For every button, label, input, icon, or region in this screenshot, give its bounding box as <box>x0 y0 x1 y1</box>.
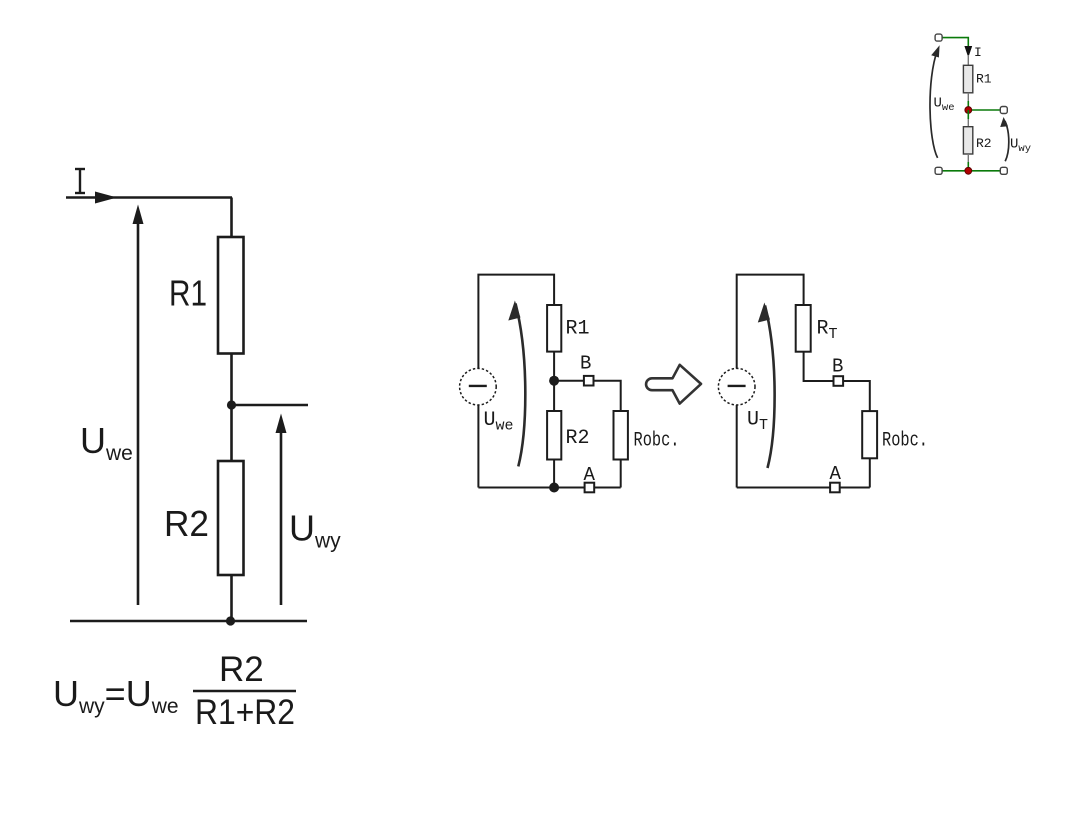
wire arrow to R1 <box>967 55 969 65</box>
svg-text:R1: R1 <box>566 318 590 341</box>
arrowhead I small <box>964 46 972 58</box>
svg-text:A: A <box>830 463 842 485</box>
wire node to right tap <box>232 404 309 407</box>
source minus line <box>469 385 487 387</box>
arrow Uwe small curved <box>930 50 938 158</box>
node dot mid (red) <box>965 107 972 114</box>
wire node to R2 <box>230 405 233 461</box>
terminal A square <box>585 483 595 493</box>
svg-text:R2: R2 <box>164 503 209 544</box>
arrow Uwy small curved <box>1005 121 1009 161</box>
arrowhead I current <box>95 192 117 204</box>
wire B to load branch <box>594 381 621 411</box>
resistor RT <box>796 305 811 352</box>
arrow Uwy <box>280 431 283 605</box>
wire RT to B <box>804 352 834 381</box>
wire top corner down to R1 <box>230 198 233 238</box>
wire R2 to bottom rail <box>230 575 233 621</box>
terminal B square <box>834 376 844 386</box>
svg-text:I: I <box>974 45 982 60</box>
wire R2 lead upper (gray) <box>967 119 969 127</box>
wire R2 to bottom <box>553 460 555 488</box>
svg-text:Robc.: Robc. <box>634 430 680 453</box>
bottom rail wire <box>70 620 307 623</box>
wire source to bottom <box>477 405 479 488</box>
resistor R2 <box>218 461 244 575</box>
bottom junction dot <box>226 616 235 625</box>
wire top <box>737 275 804 369</box>
resistor R2 <box>547 411 561 460</box>
wire R1 to node <box>230 354 233 406</box>
terminal A square <box>830 483 840 493</box>
svg-text:B: B <box>580 353 591 375</box>
resistor Robc <box>614 411 628 460</box>
resistor Robc right <box>862 411 877 458</box>
wire R2 to bottom rail <box>967 162 969 171</box>
wire R1 to mid node <box>967 101 969 110</box>
arrow Uwe curved <box>516 304 526 467</box>
resistor R1 <box>218 237 244 354</box>
wire mid node to right terminal <box>968 109 1000 111</box>
source UT circle <box>718 368 755 405</box>
terminal top left <box>935 34 942 41</box>
node dot B branch <box>549 376 559 386</box>
wire top small <box>942 38 968 46</box>
svg-text:Robc.: Robc. <box>882 430 928 453</box>
resistor R2 small <box>963 127 972 154</box>
arrow Uwe <box>137 222 140 605</box>
svg-text:R1+R2: R1+R2 <box>195 693 295 732</box>
wire A to load <box>840 487 870 489</box>
formula Uwy = Uwe * R2/(R1+R2) <box>53 650 296 732</box>
svg-text:R1: R1 <box>976 72 992 87</box>
wire node to terminal B <box>554 380 584 382</box>
resistor R1 <box>547 305 561 352</box>
wire B to load <box>843 381 870 411</box>
svg-text:R2: R2 <box>976 136 992 151</box>
svg-text:B: B <box>832 356 843 378</box>
wire R2 lead lower (gray) <box>967 154 969 162</box>
svg-text:A: A <box>584 464 596 486</box>
wire R1 to node B <box>553 352 555 411</box>
wire bottom rail <box>737 487 830 489</box>
terminal mid right <box>1000 107 1007 114</box>
svg-text:R1: R1 <box>169 273 207 314</box>
resistor R1 small <box>963 65 972 93</box>
svg-text:R2: R2 <box>566 427 590 450</box>
source Uwe circle <box>460 368 497 405</box>
wire source to bottom <box>736 405 738 488</box>
wire top <box>478 275 554 369</box>
big transform arrow <box>646 365 701 404</box>
arrow UT curved <box>765 306 775 469</box>
wire R1 lead lower (gray) <box>967 93 969 101</box>
wire mid node down (green) <box>967 110 969 119</box>
source minus line <box>728 385 746 387</box>
svg-text:R2: R2 <box>219 650 264 689</box>
node dot bottom <box>549 483 559 493</box>
terminal bottom left <box>935 167 942 174</box>
terminal B square <box>584 376 594 386</box>
node dot bottom (red) <box>965 167 972 174</box>
wire bottom rail <box>478 487 584 489</box>
wire bottom small rail <box>942 170 1000 172</box>
wire Robc to bottom <box>620 460 622 488</box>
label I (current) <box>75 169 85 193</box>
wire A to load <box>594 487 621 489</box>
wire top horizontal with current direction <box>66 196 232 199</box>
node junction dot <box>227 400 236 409</box>
wire Robc to bottom <box>869 458 871 487</box>
terminal bottom right <box>1000 167 1007 174</box>
